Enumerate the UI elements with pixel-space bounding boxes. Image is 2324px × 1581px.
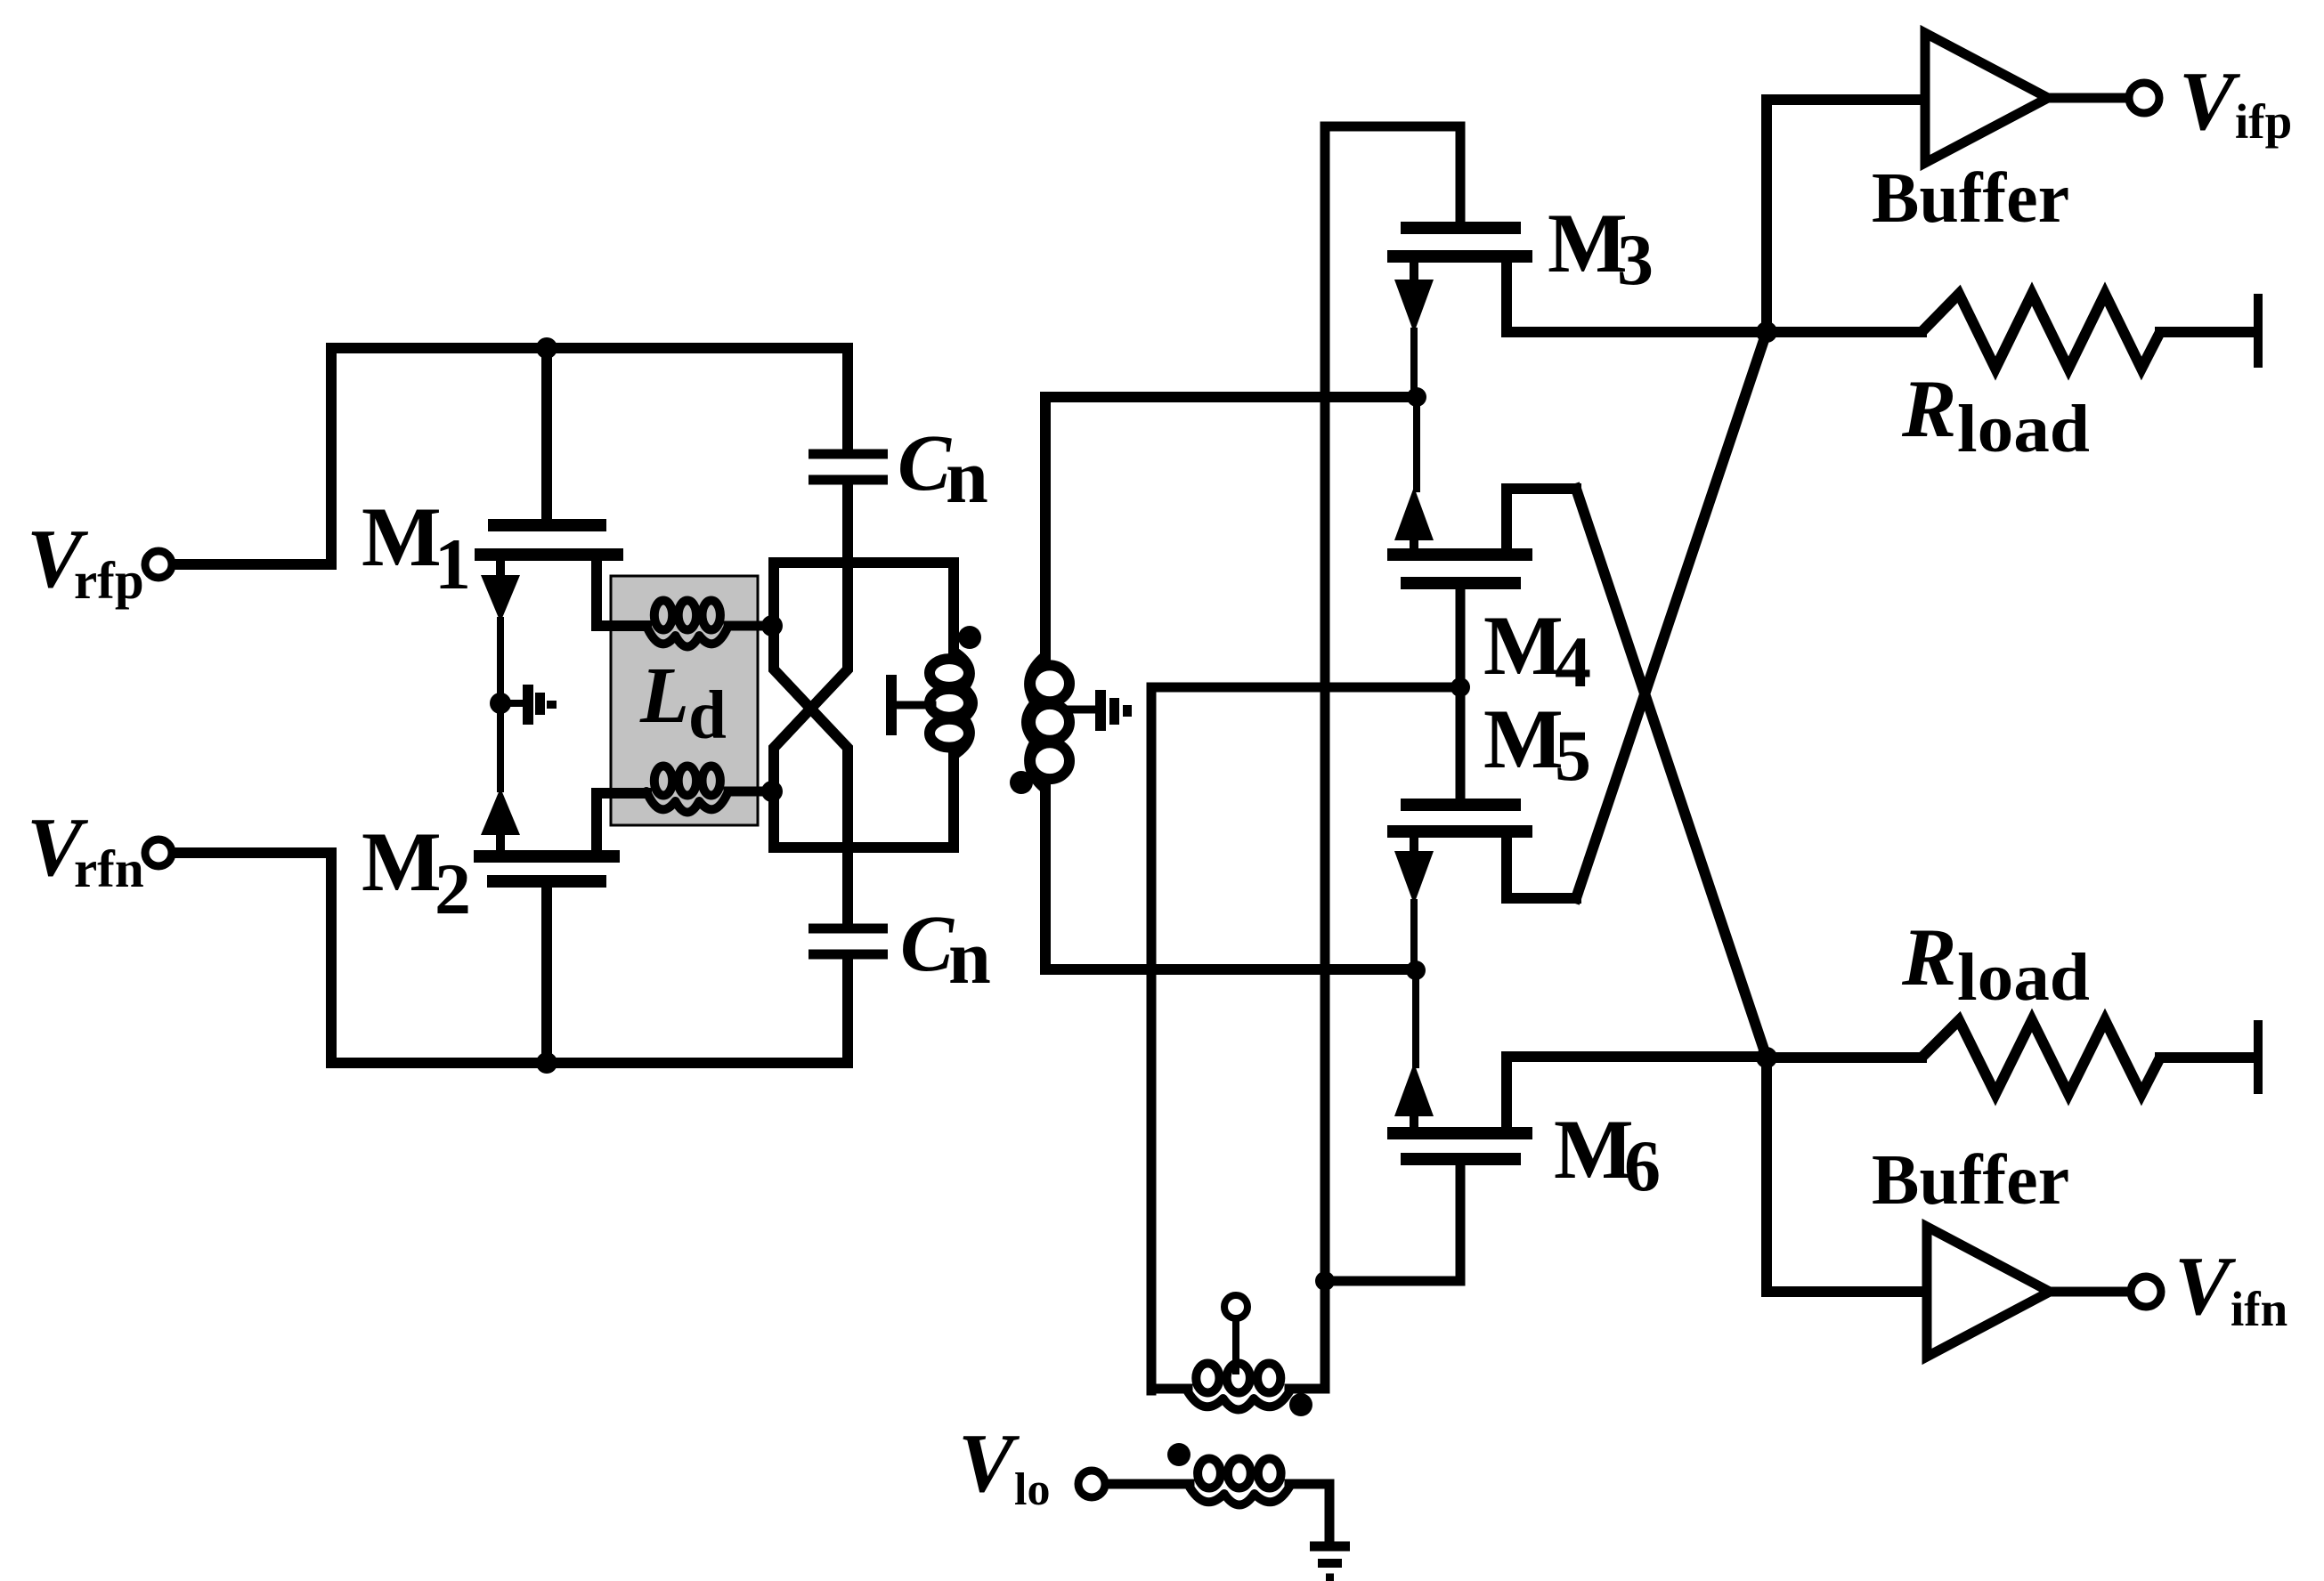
label M2 <box>362 815 471 929</box>
wire secondary bottom to M5-M6 node <box>1045 787 1414 969</box>
transformer T1 secondary winding <box>1027 656 1069 789</box>
svg-text:rfn: rfn <box>74 839 144 898</box>
transformer T1 primary tap <box>886 675 932 735</box>
svg-text:d: d <box>688 677 727 753</box>
node M6 gate rail <box>1315 1271 1335 1291</box>
wire cross right rail lower <box>948 753 959 847</box>
balun secondary dot <box>1289 1393 1312 1416</box>
svg-text:ifn: ifn <box>2231 1282 2287 1336</box>
svg-text:L: L <box>639 652 689 740</box>
terminal Vifp <box>2129 83 2159 113</box>
node top-rail M1-gate <box>536 337 557 359</box>
transformer T1 secondary tap <box>1069 690 1132 731</box>
wire cross-couple M4 to IFN <box>1576 489 1767 1058</box>
svg-text:V: V <box>2174 1240 2237 1333</box>
svg-text:load: load <box>1957 940 2090 1015</box>
wire cross center-to-left swap <box>774 484 848 847</box>
wire secondary top to M3-M4 node <box>1045 397 1414 659</box>
wire cross-couple M5 to IFP <box>1576 332 1767 898</box>
resistor Rload bottom <box>1767 1020 2258 1094</box>
label Buffer bottom <box>1872 1141 2069 1220</box>
svg-text:M: M <box>1483 598 1564 693</box>
capacitor Cn top <box>809 348 888 480</box>
label M6 <box>1554 1102 1661 1206</box>
node M4-M5 gate junction <box>1450 677 1470 697</box>
svg-text:5: 5 <box>1555 715 1591 796</box>
node Ld top cross rail <box>761 615 783 636</box>
svg-text:Buffer: Buffer <box>1872 159 2069 238</box>
transformer T1 primary winding <box>930 652 972 755</box>
label M3 <box>1548 196 1654 300</box>
svg-text:V: V <box>2179 55 2241 148</box>
label Vifp <box>2179 55 2292 149</box>
buffer U2 <box>1927 1227 2130 1357</box>
svg-text:Buffer: Buffer <box>1872 1141 2069 1220</box>
balun primary winding <box>1107 1459 1329 1541</box>
node M5-M6 sources <box>1406 961 1426 980</box>
svg-text:rfp: rfp <box>74 551 144 610</box>
balun secondary winding <box>1151 1364 1325 1410</box>
svg-text:2: 2 <box>435 848 471 929</box>
ground <box>1310 1546 1350 1577</box>
capacitor Cn bottom <box>809 853 888 1063</box>
node IFN junction <box>1756 1047 1777 1068</box>
terminal Vifn <box>2131 1277 2161 1307</box>
node bottom-rail M2-gate <box>536 1052 557 1074</box>
svg-text:M: M <box>362 490 442 584</box>
wire cross top bar <box>768 557 959 568</box>
svg-text:V: V <box>958 1417 1020 1510</box>
node source midpoint <box>490 693 511 714</box>
transistor M2 <box>474 788 646 1063</box>
transistor M5 <box>1387 687 1576 967</box>
svg-text:ifp: ifp <box>2235 94 2292 149</box>
svg-text:M: M <box>1548 196 1628 290</box>
label Rload bottom <box>1901 912 2090 1015</box>
balun primary dot <box>1167 1443 1190 1466</box>
wire IFP to buffer1 <box>1767 100 1922 332</box>
svg-text:6: 6 <box>1624 1125 1661 1206</box>
svg-text:C: C <box>900 900 955 988</box>
node M3-M4 sources <box>1407 387 1426 407</box>
svg-text:R: R <box>1901 363 1956 454</box>
wire cross right rail upper <box>948 563 959 653</box>
svg-text:4: 4 <box>1555 621 1591 702</box>
wire cross bottom bar <box>768 842 959 853</box>
wire M1 gate lead <box>541 348 552 520</box>
terminal Vrfp <box>145 551 172 578</box>
label Cn top <box>898 419 988 519</box>
node IFP junction <box>1756 321 1777 343</box>
label M5 <box>1483 692 1591 796</box>
svg-text:M: M <box>1554 1102 1634 1196</box>
wire thin M1 source <box>497 620 504 694</box>
transformer T1 secondary dot <box>1010 771 1033 794</box>
balun secondary centre-tap terminal <box>1224 1295 1247 1371</box>
label Vlo <box>958 1417 1050 1515</box>
terminal Vlo <box>1078 1471 1105 1497</box>
svg-text:R: R <box>1901 912 1956 1002</box>
label Rload top <box>1901 363 2090 466</box>
wire M4-M5 gate line <box>1151 687 1460 1390</box>
wire IFN to buffer2 <box>1767 1058 1923 1292</box>
wire Vrfn to bottom rail <box>175 853 848 1063</box>
svg-text:C: C <box>898 419 952 507</box>
inductor Ld box <box>611 576 758 825</box>
label Buffer top <box>1872 159 2069 238</box>
svg-text:lo: lo <box>1014 1464 1050 1515</box>
label M4 <box>1483 598 1591 702</box>
terminal Vrfn <box>145 839 172 866</box>
wire thin M2 source <box>497 712 504 789</box>
svg-text:M: M <box>362 815 442 909</box>
transistor M1 <box>475 525 646 626</box>
label M1 <box>362 490 471 604</box>
transistor M6 <box>1325 974 1763 1281</box>
svg-text:n: n <box>946 434 988 519</box>
label Vifn <box>2174 1240 2287 1336</box>
transistor M4 <box>1387 401 1576 687</box>
resistor Rload top <box>1767 294 2258 369</box>
wire cross left-to-center swap <box>774 563 848 847</box>
wire LO rail M3-M6 gates <box>1320 126 1330 1389</box>
substrate tap mid <box>500 685 557 725</box>
transistor M3 <box>1387 228 1763 393</box>
wire Vrfp to top rail <box>175 348 848 564</box>
svg-text:3: 3 <box>1617 219 1654 300</box>
buffer U1 <box>1925 33 2128 163</box>
svg-text:load: load <box>1957 392 2090 466</box>
label Ld <box>639 652 727 753</box>
svg-text:M: M <box>1483 692 1564 786</box>
label Cn bottom <box>900 900 991 1000</box>
svg-text:1: 1 <box>435 523 471 604</box>
transformer T1 primary dot <box>958 626 981 649</box>
node Ld bottom cross rail <box>761 781 783 802</box>
inductor Ld top coil <box>646 601 769 647</box>
svg-text:n: n <box>948 914 991 1000</box>
label Vrfn <box>27 801 144 898</box>
inductor Ld bottom coil <box>646 766 769 813</box>
wire rail to M3 gate <box>1325 126 1460 223</box>
label Vrfp <box>27 513 144 610</box>
